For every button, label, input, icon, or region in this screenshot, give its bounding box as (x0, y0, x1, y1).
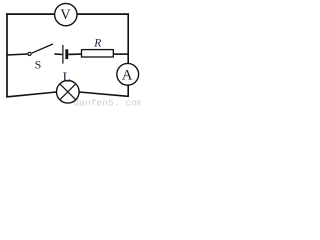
switch S blade (open) (32, 44, 53, 53)
svg-text:A: A (122, 67, 133, 83)
wire top (6, 13, 129, 15)
resistor R box (82, 50, 114, 57)
lamp L circle (57, 81, 80, 104)
wire right vertical (127, 13, 129, 97)
background (0, 0, 141, 108)
switch S pivot contact (28, 52, 31, 55)
svg-text:L: L (63, 69, 71, 84)
wire bottom right (lamp to ammeter leg) (79, 92, 128, 96)
svg-text:V: V (60, 7, 71, 23)
svg-text:R: R (93, 37, 101, 49)
voltmeter U1 circle (55, 3, 77, 25)
battery long thin plate (+) (62, 45, 64, 64)
wire battery to resistor (68, 53, 82, 55)
wire middle branch left segment (left wire to switch) (7, 54, 28, 55)
svg-text:danfen5. com: danfen5. com (74, 98, 142, 109)
wire left vertical (6, 13, 8, 97)
wire resistor to right vertical (114, 53, 129, 55)
wire switch to battery (54, 53, 62, 56)
lamp X stroke 1 (60, 84, 76, 100)
lamp X stroke 2 (60, 84, 76, 100)
wire bottom left (corner to lamp) (6, 92, 56, 97)
battery short thick plate (-) (65, 49, 68, 59)
svg-text:S: S (35, 57, 42, 71)
ammeter U2 circle (117, 63, 139, 85)
